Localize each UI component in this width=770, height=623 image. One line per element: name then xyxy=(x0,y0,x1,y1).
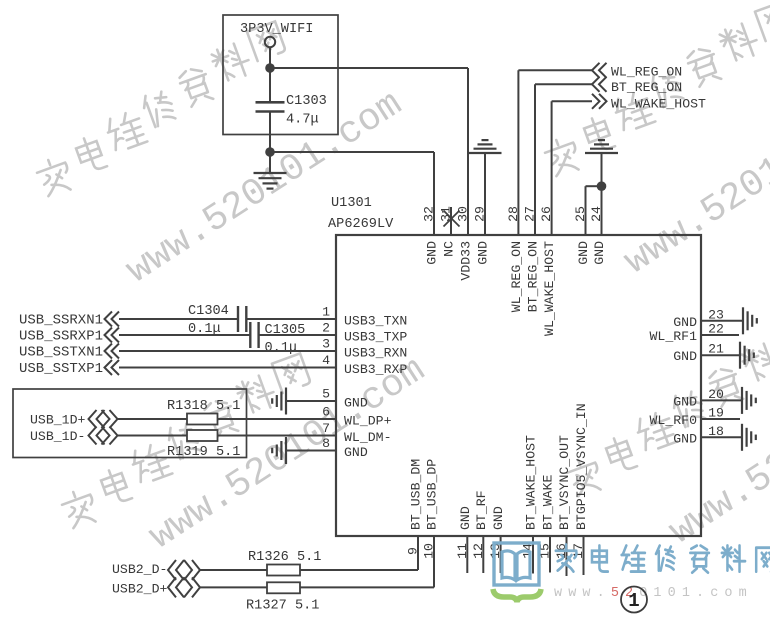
pin 15 name BT_WAKE xyxy=(541,475,556,530)
pin 10 number xyxy=(422,543,437,559)
svg-text:C1305: C1305 xyxy=(265,323,306,338)
svg-text:BT_USB_DP: BT_USB_DP xyxy=(425,459,440,530)
wire pin10 to USB2_D+ xyxy=(201,536,435,587)
watermark www band right-bottom xyxy=(662,344,770,554)
svg-text:WL_DM-: WL_DM- xyxy=(344,430,391,445)
wire pin25 xyxy=(586,186,602,235)
svg-text:BTGPIO5_VSYNC_IN: BTGPIO5_VSYNC_IN xyxy=(574,403,589,530)
watermark www band right-top xyxy=(617,74,770,284)
svg-text:USB2_D+: USB2_D+ xyxy=(112,582,167,597)
wire pin14 stub xyxy=(532,536,534,574)
pin 18 number xyxy=(708,424,724,439)
pin 3 number xyxy=(322,337,330,352)
svg-text:R1318 5.1: R1318 5.1 xyxy=(167,399,240,414)
pin 31 name NC xyxy=(442,241,457,257)
pin 23 number xyxy=(708,307,724,322)
ref designator U1301 xyxy=(331,196,372,211)
svg-text:USB3_RXP: USB3_RXP xyxy=(344,362,407,377)
svg-text:0.1μ: 0.1μ xyxy=(265,341,298,356)
svg-text:4.7μ: 4.7μ xyxy=(286,113,319,128)
pin 13 name GND xyxy=(491,506,506,530)
pin 17 name BTGPIO5_VSYNC_IN xyxy=(574,403,589,530)
ground above pin29 xyxy=(469,140,502,153)
pin 8 number xyxy=(322,436,330,451)
svg-text:BT_USB_DM: BT_USB_DM xyxy=(409,459,424,530)
svg-text:WL_WAKE_HOST: WL_WAKE_HOST xyxy=(611,97,706,112)
pin 4 name USB3_RXP xyxy=(344,362,407,377)
wire pin7 xyxy=(118,435,337,437)
wire pin17 stub xyxy=(583,536,585,575)
node junction pin24/25 xyxy=(597,181,607,191)
svg-text:5: 5 xyxy=(322,387,330,402)
svg-text:7: 7 xyxy=(322,421,330,436)
port USB_SSTXN1 xyxy=(19,344,119,361)
pin 7 name WL_DM- xyxy=(344,430,391,445)
pin 30 name VDD33 xyxy=(459,241,474,281)
port USB2_D- xyxy=(112,560,200,580)
pin 25 name GND xyxy=(576,241,591,265)
svg-text:U1301: U1301 xyxy=(331,196,372,211)
resistor R1318 xyxy=(167,399,240,425)
op ic U1301 AP6269LV body xyxy=(336,235,701,536)
pin 21 number xyxy=(708,342,724,357)
capacitor C1303 xyxy=(256,94,327,128)
wire pin26 WL_WAKE_HOST xyxy=(552,101,592,235)
pin 20 number xyxy=(708,387,724,402)
svg-text:24: 24 xyxy=(589,206,604,222)
wire pin16 stub xyxy=(566,536,568,576)
wire pin19 stub xyxy=(701,418,740,420)
svg-text:GND: GND xyxy=(458,506,473,530)
svg-text:8: 8 xyxy=(322,436,330,451)
part number AP6269LV xyxy=(328,217,394,232)
port USB_SSTXP1 xyxy=(19,360,119,377)
pin 27 name BT_REG_ON xyxy=(526,241,541,312)
pin 3 name USB3_RXN xyxy=(344,346,407,361)
group box USB_1D xyxy=(13,389,247,458)
svg-text:4: 4 xyxy=(322,353,330,368)
watermark zh band mid-left xyxy=(59,353,311,530)
watermark zh band top-right xyxy=(542,1,770,178)
no-connect X pin31 xyxy=(444,207,460,235)
port USB_SSRXP1 xyxy=(19,328,119,345)
wire pin21 xyxy=(701,354,740,356)
svg-text:28: 28 xyxy=(506,206,521,222)
ground below C1303 xyxy=(254,173,287,189)
wire pin1 with C1304 xyxy=(119,318,336,320)
svg-text:USB3_TXN: USB3_TXN xyxy=(344,314,407,329)
ground above pin24 xyxy=(585,140,618,153)
pin 10 name BT_USB_DP xyxy=(425,459,440,530)
wire gnd node to pin32 xyxy=(270,152,434,235)
pin 5 number xyxy=(322,387,330,402)
node junction 3P3V top xyxy=(265,63,275,73)
svg-text:GND: GND xyxy=(425,241,440,265)
svg-text:WL_RF0: WL_RF0 xyxy=(650,413,698,428)
pin 6 number xyxy=(322,405,330,420)
svg-text:WL_DP+: WL_DP+ xyxy=(344,414,392,429)
pin 11 name GND xyxy=(458,506,473,530)
pin 13 number xyxy=(488,543,503,559)
page number circle 1 xyxy=(621,587,647,613)
port USB_1D- xyxy=(30,427,118,445)
wire pin12 stub xyxy=(482,536,484,573)
pin 26 number xyxy=(539,206,554,222)
wire pin29 to ground xyxy=(484,153,486,235)
pin 11 number xyxy=(455,543,470,559)
pin 4 number xyxy=(322,353,330,368)
wire C1303 to lower node xyxy=(269,112,271,153)
port BT_REG_ON xyxy=(592,77,682,95)
pin 22 number xyxy=(708,322,724,337)
wire circle to node xyxy=(269,47,271,68)
svg-text:NC: NC xyxy=(442,241,457,257)
svg-text:3P3V_WIFI: 3P3V_WIFI xyxy=(240,22,313,37)
wire pin20 xyxy=(701,399,742,401)
ground pin18 xyxy=(742,424,756,451)
svg-text:30: 30 xyxy=(456,206,471,222)
svg-text:GND: GND xyxy=(344,445,368,460)
svg-text:USB_1D+: USB_1D+ xyxy=(30,413,85,428)
pin 1 number xyxy=(322,305,330,320)
svg-text:6: 6 xyxy=(322,405,330,420)
svg-text:USB_SSTXP1: USB_SSTXP1 xyxy=(19,361,103,377)
svg-text:GND: GND xyxy=(673,349,697,364)
port USB_SSRXN1 xyxy=(19,312,119,329)
svg-text:C1303: C1303 xyxy=(286,94,327,109)
wire ground to node xyxy=(601,153,603,186)
svg-text:GND: GND xyxy=(491,506,506,530)
wire node to ground xyxy=(269,152,271,173)
svg-text:WL_REG_ON: WL_REG_ON xyxy=(611,65,682,80)
pin 17 number xyxy=(571,543,586,559)
node junction 3P3V bottom xyxy=(265,147,275,157)
watermark zh band right-mid xyxy=(564,321,770,498)
svg-text:GND: GND xyxy=(592,241,607,265)
pin 9 number xyxy=(406,547,421,555)
svg-text:BT_VSYNC_OUT: BT_VSYNC_OUT xyxy=(557,435,572,530)
wire pin3 xyxy=(119,350,336,352)
svg-text:BT_WAKE_HOST: BT_WAKE_HOST xyxy=(524,435,539,530)
svg-text:31: 31 xyxy=(439,206,454,222)
wire pin27 BT_REG_ON xyxy=(535,84,592,235)
pin 20 name GND xyxy=(673,394,697,409)
svg-text:27: 27 xyxy=(523,206,538,222)
pin 9 name BT_USB_DM xyxy=(409,459,424,530)
port USB2_D+ xyxy=(112,577,200,597)
pin 23 name GND xyxy=(673,315,697,330)
wire pin23 xyxy=(701,320,743,322)
power port circle xyxy=(265,37,275,47)
pin 26 name WL_WAKE_HOST xyxy=(542,241,557,336)
port WL_WAKE_HOST xyxy=(592,94,706,112)
svg-text:WL_RF1: WL_RF1 xyxy=(650,329,698,344)
port USB_1D+ xyxy=(30,410,118,428)
svg-text:BT_REG_ON: BT_REG_ON xyxy=(526,241,541,312)
pin 29 number xyxy=(473,206,488,222)
wire pin11 stub xyxy=(466,536,468,573)
wire pin9 to USB2_D- xyxy=(201,536,419,570)
pin 14 number xyxy=(521,543,536,559)
pin 15 number xyxy=(538,543,553,559)
pin 14 name BT_WAKE_HOST xyxy=(524,435,539,530)
pin 2 name USB3_TXP xyxy=(344,330,407,345)
pin 31 number xyxy=(439,206,454,222)
logo url gray/red xyxy=(554,586,753,601)
pin 6 name WL_DP+ xyxy=(344,414,392,429)
pin 8 name GND xyxy=(344,445,368,460)
pin 1 name USB3_TXN xyxy=(344,314,407,329)
wire pin4 xyxy=(119,367,336,369)
svg-text:BT_REG_ON: BT_REG_ON xyxy=(611,80,682,95)
capacitor C1305 xyxy=(250,322,305,356)
svg-text:USB2_D-: USB2_D- xyxy=(112,562,167,577)
svg-text:26: 26 xyxy=(539,206,554,222)
pin 29 name GND xyxy=(476,241,491,265)
svg-text:BT_RF: BT_RF xyxy=(474,490,489,530)
pin 18 name GND xyxy=(673,431,697,446)
pin 16 number xyxy=(554,543,569,559)
svg-text:29: 29 xyxy=(473,206,488,222)
svg-text:R1327 5.1: R1327 5.1 xyxy=(246,599,319,614)
svg-text:USB_SSRXN1: USB_SSRXN1 xyxy=(19,313,103,329)
svg-text:3: 3 xyxy=(322,337,330,352)
svg-text:WL_REG_ON: WL_REG_ON xyxy=(509,241,524,312)
pin 2 number xyxy=(322,321,330,336)
wire 3P3V to pin30 VDD33 xyxy=(270,68,468,235)
svg-text:2: 2 xyxy=(322,321,330,336)
watermark www band upper-left xyxy=(119,83,410,293)
capacitor C1304 xyxy=(188,304,246,337)
wire pin13 stub xyxy=(500,536,502,573)
wire pin22 stub xyxy=(701,334,739,336)
pin 27 number xyxy=(523,206,538,222)
svg-text:WL_WAKE_HOST: WL_WAKE_HOST xyxy=(542,241,557,336)
resistor R1326 xyxy=(248,550,321,576)
svg-text:www.520101.com: www.520101.com xyxy=(662,344,770,554)
svg-text:USB_SSTXN1: USB_SSTXN1 xyxy=(19,345,103,361)
watermark www band bottom-left xyxy=(142,349,433,559)
pin 19 number xyxy=(708,406,724,421)
ground pin8 xyxy=(272,437,336,464)
svg-text:GND: GND xyxy=(673,315,697,330)
svg-text:USB3_RXN: USB3_RXN xyxy=(344,346,407,361)
svg-text:25: 25 xyxy=(573,206,588,222)
ground pin23 xyxy=(743,307,757,334)
svg-text:www.520101.com: www.520101.com xyxy=(554,586,753,601)
wire pin2 with C1305 xyxy=(119,334,336,336)
pin 28 number xyxy=(506,206,521,222)
svg-text:BT_WAKE: BT_WAKE xyxy=(541,475,556,530)
svg-text:GND: GND xyxy=(476,241,491,265)
wire pin28 WL_REG_ON xyxy=(518,70,592,235)
svg-text:R1326 5.1: R1326 5.1 xyxy=(248,550,321,565)
ground pin21 xyxy=(740,342,754,369)
logo site name blue xyxy=(556,545,770,573)
resistor R1327 xyxy=(246,582,319,613)
logo book icon xyxy=(493,543,541,602)
power box 3P3V_WIFI xyxy=(223,15,338,135)
pin 21 name GND xyxy=(673,349,697,364)
pin 32 name GND xyxy=(425,241,440,265)
pin 19 name WL_RF0 xyxy=(650,413,698,428)
pin 7 number xyxy=(322,421,330,436)
resistor R1319 xyxy=(167,430,240,460)
pin 5 name GND xyxy=(344,396,368,411)
pin 25 number xyxy=(573,206,588,222)
svg-text:AP6269LV: AP6269LV xyxy=(328,217,394,232)
pin 24 number xyxy=(589,206,604,222)
pin 22 name WL_RF1 xyxy=(650,329,698,344)
pin 16 name BT_VSYNC_OUT xyxy=(557,435,572,530)
svg-text:32: 32 xyxy=(422,206,437,222)
wire node to C1303 xyxy=(269,68,271,102)
svg-text:GND: GND xyxy=(576,241,591,265)
pin 12 number xyxy=(471,543,486,559)
ground pin20 xyxy=(742,387,756,414)
ground pin5 xyxy=(272,388,336,415)
svg-text:USB3_TXP: USB3_TXP xyxy=(344,330,407,345)
svg-text:1: 1 xyxy=(628,590,639,612)
svg-text:R1319 5.1: R1319 5.1 xyxy=(167,445,240,460)
svg-text:GND: GND xyxy=(673,394,697,409)
pin 12 name BT_RF xyxy=(474,490,489,530)
pin 30 number xyxy=(456,206,471,222)
wire pin24 xyxy=(601,186,603,235)
svg-text:USB_1D-: USB_1D- xyxy=(30,429,85,444)
svg-text:GND: GND xyxy=(344,396,368,411)
svg-text:C1304: C1304 xyxy=(188,304,229,319)
svg-text:VDD33: VDD33 xyxy=(459,241,474,281)
pin 32 number xyxy=(422,206,437,222)
pin 28 name WL_REG_ON xyxy=(509,241,524,312)
pin 24 name GND xyxy=(592,241,607,265)
port WL_REG_ON xyxy=(592,63,682,80)
svg-text:USB_SSRXP1: USB_SSRXP1 xyxy=(19,329,103,345)
svg-text:www.520101.com: www.520101.com xyxy=(119,83,410,293)
wire pin15 stub xyxy=(549,536,551,573)
wire pin6 xyxy=(118,418,337,420)
wire pin18 xyxy=(701,436,742,438)
svg-text:1: 1 xyxy=(322,305,330,320)
watermark zh band top-left xyxy=(34,21,286,198)
svg-text:GND: GND xyxy=(673,431,697,446)
